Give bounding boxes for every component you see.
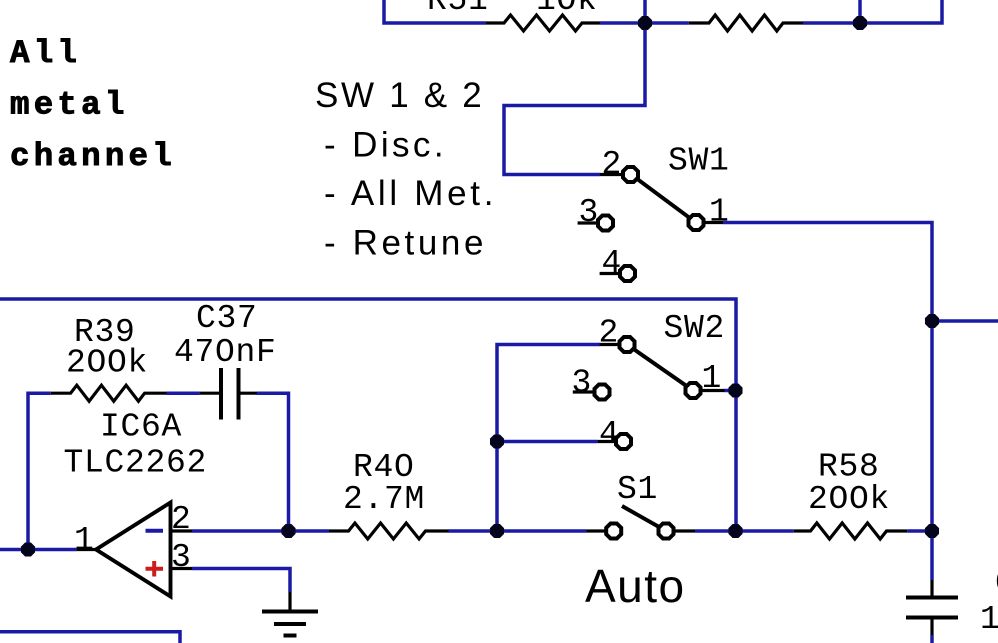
svg-text:1Ok: 1Ok bbox=[536, 0, 598, 19]
svg-text:SW 1 & 2: SW 1 & 2 bbox=[315, 76, 484, 115]
svg-text:Auto: Auto bbox=[585, 560, 686, 612]
svg-text:All: All bbox=[10, 35, 81, 72]
svg-text:3: 3 bbox=[579, 194, 600, 231]
svg-text:1: 1 bbox=[980, 601, 998, 638]
svg-text:2: 2 bbox=[171, 501, 192, 538]
svg-text:- All Met.: - All Met. bbox=[324, 174, 497, 213]
svg-text:- Retune: - Retune bbox=[324, 224, 487, 263]
svg-text:4: 4 bbox=[599, 416, 620, 453]
svg-text:3: 3 bbox=[171, 539, 192, 576]
svg-text:metal: metal bbox=[10, 87, 129, 124]
svg-text:SW1: SW1 bbox=[668, 143, 730, 180]
svg-text:- Disc.: - Disc. bbox=[324, 126, 447, 165]
svg-text:C37: C37 bbox=[196, 300, 258, 337]
svg-text:4: 4 bbox=[602, 245, 623, 282]
svg-text:R51: R51 bbox=[427, 0, 489, 19]
svg-text:2: 2 bbox=[599, 315, 620, 352]
svg-text:IC6A: IC6A bbox=[100, 409, 182, 446]
svg-text:S1: S1 bbox=[617, 471, 658, 508]
svg-text:1: 1 bbox=[709, 194, 730, 231]
svg-text:channel: channel bbox=[10, 138, 176, 175]
svg-text:R58: R58 bbox=[818, 449, 880, 486]
svg-text:2OOk: 2OOk bbox=[66, 345, 148, 382]
svg-text:2OOk: 2OOk bbox=[808, 481, 890, 518]
svg-text:2: 2 bbox=[602, 146, 623, 183]
svg-text:1: 1 bbox=[702, 360, 723, 397]
svg-text:47OnF: 47OnF bbox=[174, 334, 277, 371]
svg-text:3: 3 bbox=[572, 365, 593, 402]
svg-text:1: 1 bbox=[74, 522, 95, 559]
svg-text:2.7M: 2.7M bbox=[343, 481, 425, 518]
svg-text:SW2: SW2 bbox=[664, 310, 726, 347]
svg-text:TLC2262: TLC2262 bbox=[64, 445, 208, 482]
